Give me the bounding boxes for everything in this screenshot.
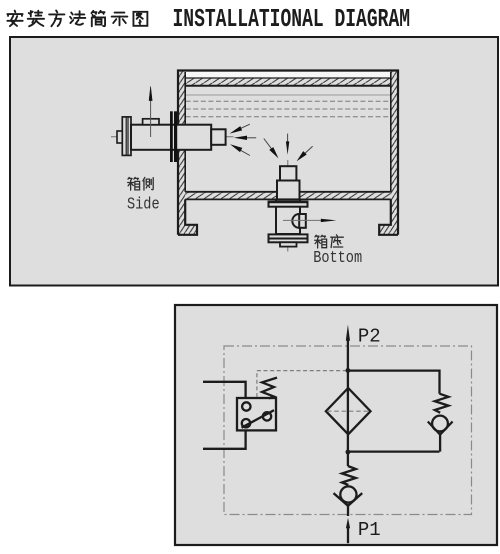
svg-text:P1: P1: [358, 519, 381, 541]
svg-text:P2: P2: [358, 326, 381, 348]
svg-text:Bottom: Bottom: [313, 248, 362, 268]
svg-text:INSTALLATIONAL DIAGRAM: INSTALLATIONAL DIAGRAM: [173, 4, 411, 34]
svg-text:Side: Side: [127, 194, 160, 214]
